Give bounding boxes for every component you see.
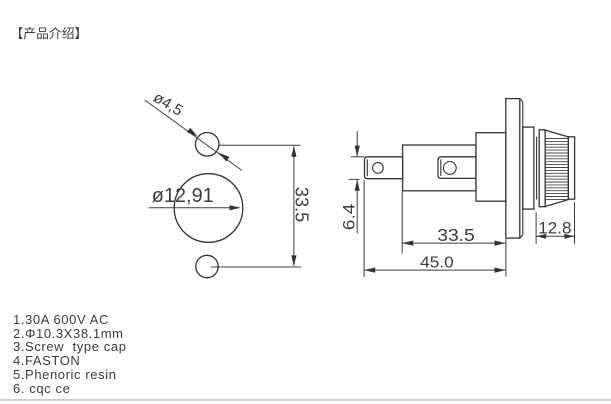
svg-text:ø12,91: ø12,91 (152, 185, 214, 207)
svg-text:6.4: 6.4 (340, 204, 359, 231)
svg-text:45.0: 45.0 (420, 255, 454, 272)
svg-text:12.8: 12.8 (538, 218, 571, 237)
svg-text:ø4,5: ø4,5 (150, 89, 185, 120)
svg-text:33.5: 33.5 (291, 187, 311, 222)
svg-text:33.5: 33.5 (437, 225, 474, 245)
